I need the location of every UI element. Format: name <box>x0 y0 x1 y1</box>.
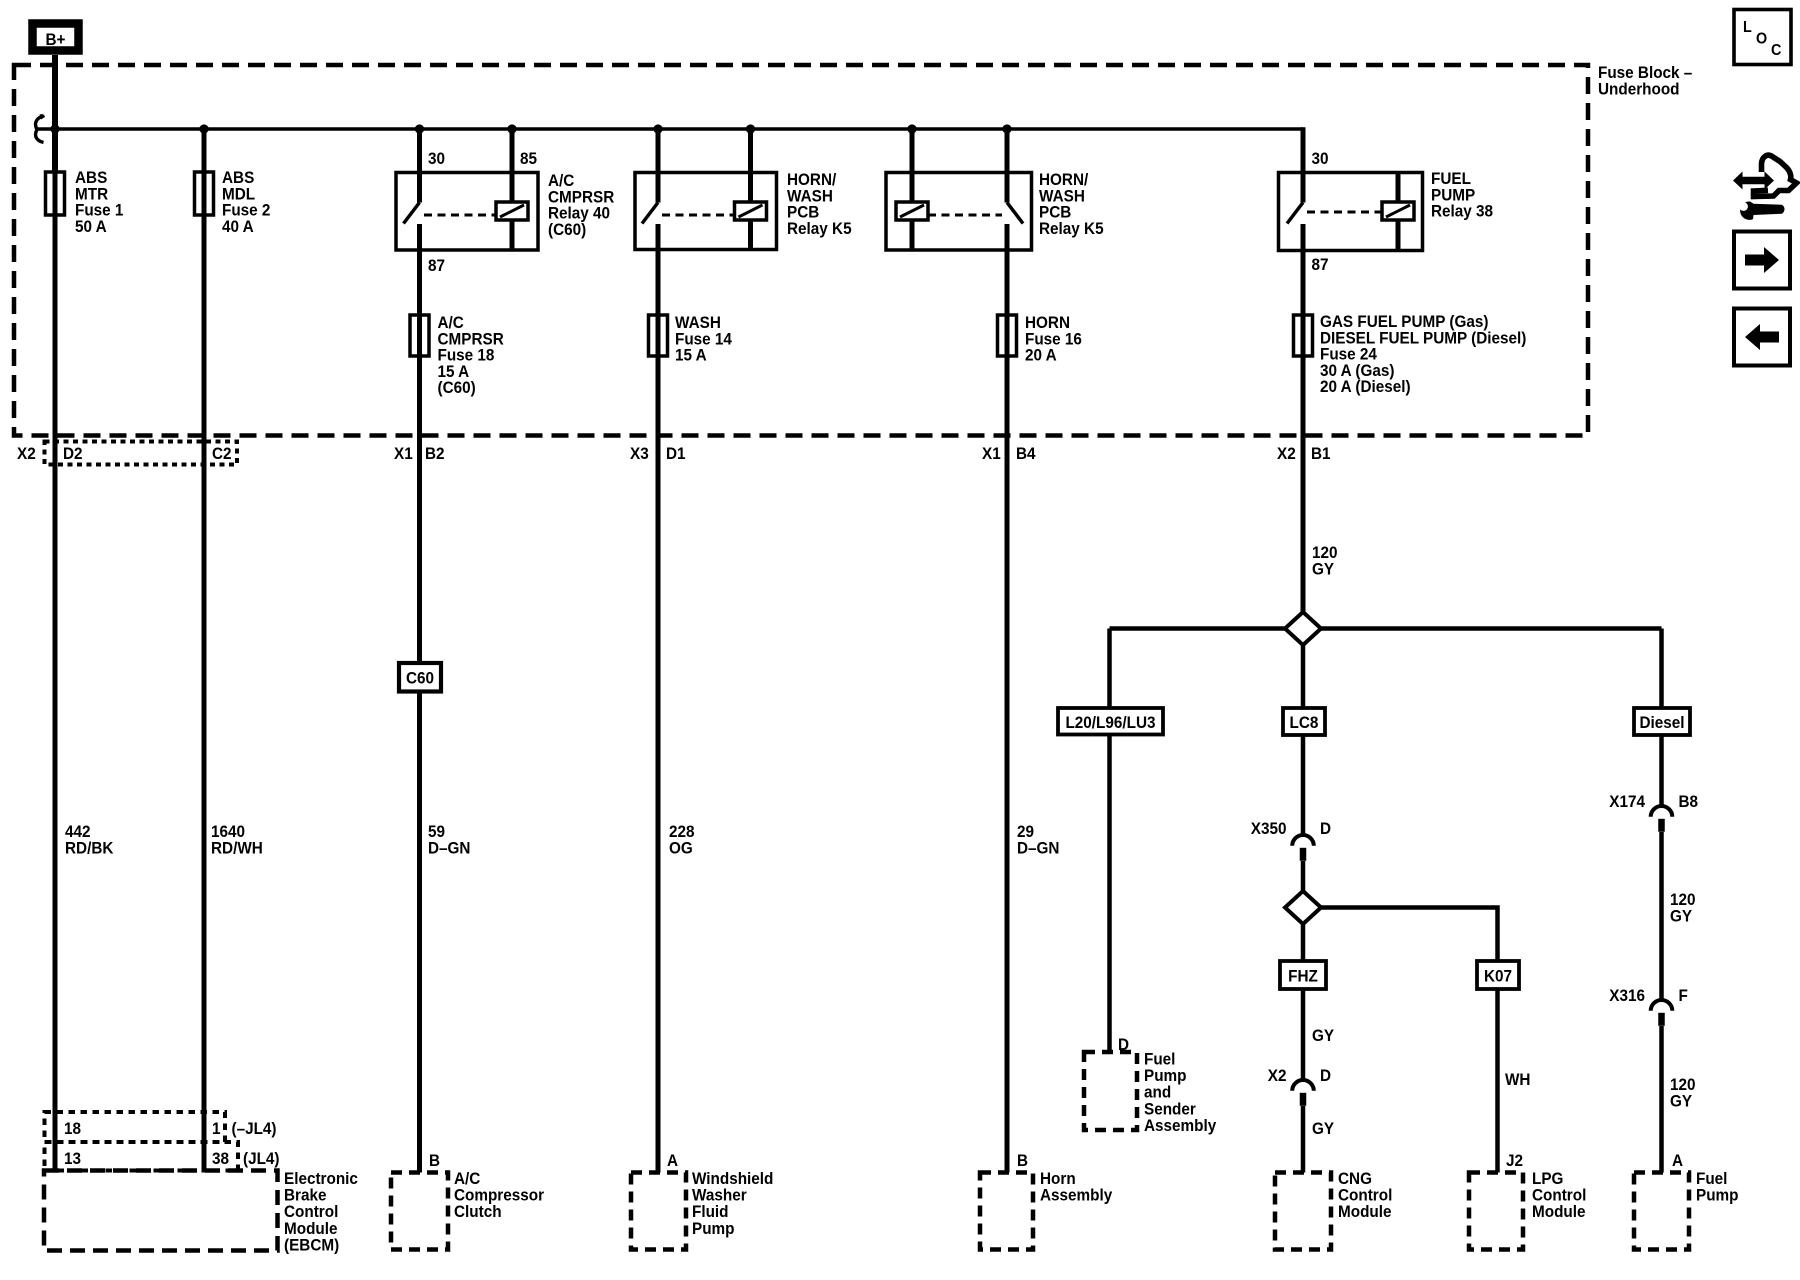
svg-text:30: 30 <box>1312 149 1329 168</box>
relay K5b coil <box>896 202 928 220</box>
svg-text:FUELPUMPRelay 38: FUELPUMPRelay 38 <box>1431 169 1493 221</box>
relay K5a dashed actuation link <box>662 214 734 217</box>
label HORN/WASH PCB Relay K5 (right) <box>1039 170 1104 238</box>
wire from bus to EBCM through fuse 1 (circuit 442) <box>53 129 58 1170</box>
relay K5b coil wire lower stub <box>910 220 915 250</box>
svg-text:C: C <box>1771 41 1781 59</box>
module Fuel Pump and Sender Assembly dashed box <box>1084 1052 1137 1130</box>
bus elbow down to fuel pump relay pin 30 <box>1301 127 1306 202</box>
option box FHZ <box>1280 961 1326 989</box>
svg-text:442RD/BK: 442RD/BK <box>65 822 114 857</box>
connector X174 terminal B8 inline <box>1609 792 1698 832</box>
wire splice S2 branch to K07 <box>1303 908 1498 962</box>
relay 40 pin 30 wire <box>417 129 422 203</box>
junction dot on bus at x=55 <box>50 124 59 133</box>
wire relay K5b to fuse 16 and horn (circuit 29) <box>1005 224 1010 1173</box>
label fuse 2 <box>222 168 270 236</box>
wire label GY above X2 connector <box>1312 1026 1334 1045</box>
svg-text:1640RD/WH: 1640RD/WH <box>211 822 263 857</box>
svg-text:X316: X316 <box>1609 986 1645 1005</box>
svg-text:L: L <box>1743 18 1752 36</box>
svg-text:X2: X2 <box>1277 444 1296 463</box>
label EBCM <box>284 1169 358 1254</box>
splice S2 CNG/LPG branch <box>1285 891 1321 924</box>
relay K5a coil wire upper <box>748 129 753 202</box>
junction dot on bus at x=204 <box>199 124 208 133</box>
svg-text:B2: B2 <box>425 444 445 463</box>
svg-text:B4: B4 <box>1016 444 1036 463</box>
label fuse 24 <box>1320 312 1526 396</box>
wire label 1640 RD/WH <box>211 822 263 857</box>
svg-text:K07: K07 <box>1484 967 1512 986</box>
svg-text:WindshieldWasherFluidPump: WindshieldWasherFluidPump <box>692 1169 773 1238</box>
svg-text:D: D <box>1320 819 1331 838</box>
connector X316 terminal F inline <box>1609 986 1688 1026</box>
fuse block underhood dashed boundary <box>14 65 1588 436</box>
junction dot on bus at x=658 <box>653 124 662 133</box>
bus wire B+ horizontal <box>37 127 1303 131</box>
wire X350 to splice S2 <box>1301 861 1306 891</box>
svg-text:GY: GY <box>1312 1026 1334 1045</box>
relay K5b switch contact (mirrored) <box>1007 203 1023 224</box>
label Fuse Block - Underhood <box>1598 63 1692 98</box>
svg-text:85: 85 <box>520 149 537 168</box>
module CNG Control Module dashed box <box>1275 1173 1331 1250</box>
label LPG Control Module <box>1532 1169 1586 1221</box>
svg-text:B1: B1 <box>1311 444 1331 463</box>
EBCM connector row pins 18 / 1 (-JL4) <box>45 1112 277 1142</box>
fuse F18 A/C CMPRSR 15A <box>410 315 429 356</box>
wire splice S2 down to FHZ <box>1301 924 1306 961</box>
connector X350 terminal D inline <box>1251 819 1331 861</box>
svg-text:B: B <box>1017 1151 1028 1170</box>
module Horn Assembly dashed box <box>980 1173 1033 1250</box>
svg-text:D2: D2 <box>63 444 83 463</box>
label fuse 18 <box>438 313 505 397</box>
svg-text:L20/L96/LU3: L20/L96/LU3 <box>1065 713 1155 732</box>
connector C60 inline box <box>399 663 441 692</box>
label fuse 1 <box>75 168 123 236</box>
wire relay 38 pin 87 through fuse 24 to splice (circuit 120) <box>1301 224 1306 612</box>
fuse F2 ABS MDL 40A <box>195 172 214 215</box>
svg-text:D: D <box>1320 1066 1331 1085</box>
relay 38 coil wire lower stub <box>1396 220 1401 251</box>
option box L20/L96/LU3 <box>1058 708 1163 735</box>
svg-text:(–JL4): (–JL4) <box>232 1119 277 1138</box>
label Windshield Washer Fluid Pump <box>692 1169 773 1238</box>
fuse F1 ABS MTR 50A <box>46 172 65 215</box>
relay K5b dashed actuation link <box>928 214 1002 217</box>
wire FHZ to X2 connector <box>1301 989 1306 1080</box>
svg-text:GY: GY <box>1312 1119 1334 1138</box>
splice S1 on fuel pump feed <box>1285 612 1321 645</box>
relay 40 coil <box>496 202 528 220</box>
svg-text:Diesel: Diesel <box>1639 713 1684 732</box>
label fuse 14 <box>675 313 732 365</box>
relay 38 switch contact <box>1287 203 1303 224</box>
fuse F14 WASH 15A <box>649 315 668 356</box>
wire splice S1 down through LC8 <box>1301 645 1306 835</box>
relay K5b HORN/WASH PCB relay box <box>886 173 1032 251</box>
svg-text:A: A <box>1672 1151 1683 1170</box>
navigation icon hand with double arrow and wrench <box>1733 155 1797 220</box>
svg-text:B: B <box>429 1151 440 1170</box>
svg-text:D1: D1 <box>666 444 686 463</box>
module Windshield Washer Fluid Pump dashed box <box>631 1173 686 1250</box>
wire from bus to EBCM through fuse 2 (circuit 1640) <box>202 129 207 1170</box>
navigation box arrow left <box>1734 309 1790 366</box>
svg-text:A/CCMPRSRFuse 1815 A(C60): A/CCMPRSRFuse 1815 A(C60) <box>438 313 505 397</box>
connector X2 dotted outline spanning D2-C2 <box>45 442 238 465</box>
relay 40 coil wire lower stub <box>510 220 515 250</box>
wire splice S1 branch horizontal to L20/L96/LU3 and Diesel <box>1110 626 1662 631</box>
svg-text:FuelPumpandSenderAssembly: FuelPumpandSenderAssembly <box>1144 1050 1216 1135</box>
wire label GY below X2 connector <box>1312 1119 1334 1138</box>
wire K07 to LPG control module <box>1495 989 1500 1173</box>
svg-text:A/CCMPRSRRelay 40(C60): A/CCMPRSRRelay 40(C60) <box>548 171 615 239</box>
relay 38 coil wire upper stub <box>1396 173 1401 203</box>
relay 40 dashed actuation link <box>424 214 496 217</box>
svg-text:1: 1 <box>212 1119 221 1138</box>
relay U1 A/C CMPRSR Relay 40 (C60) box <box>396 173 538 251</box>
option box K07 <box>1477 961 1519 989</box>
svg-text:18: 18 <box>64 1119 81 1138</box>
relay K5a coil wire lower stub <box>748 220 753 250</box>
svg-text:LC8: LC8 <box>1290 713 1319 732</box>
svg-text:87: 87 <box>1312 255 1329 274</box>
svg-text:X2: X2 <box>1268 1066 1287 1085</box>
junction dot on bus at x=419.5 <box>415 124 424 133</box>
svg-text:ElectronicBrakeControlModule(E: ElectronicBrakeControlModule(EBCM) <box>284 1169 358 1254</box>
svg-text:FuelPump: FuelPump <box>1696 1169 1739 1205</box>
relay 38 dashed actuation link <box>1307 211 1382 214</box>
svg-text:30: 30 <box>428 149 445 168</box>
wire X316 to fuel pump <box>1659 1026 1664 1173</box>
svg-text:120GY: 120GY <box>1670 1075 1696 1110</box>
svg-text:38: 38 <box>212 1149 229 1168</box>
navigation box arrow right <box>1734 232 1790 289</box>
svg-text:J2: J2 <box>1506 1151 1523 1170</box>
svg-text:59D–GN: 59D–GN <box>428 822 470 857</box>
svg-text:HORNFuse 1620 A: HORNFuse 1620 A <box>1025 313 1082 365</box>
svg-text:X1: X1 <box>394 444 413 463</box>
wire label 228 OG <box>669 822 695 857</box>
wire label 120 GY diesel lower <box>1670 1075 1696 1110</box>
relay K5a switch contact <box>642 203 658 224</box>
svg-text:13: 13 <box>64 1149 81 1168</box>
label HORN/WASH PCB Relay K5 (left) <box>787 170 852 238</box>
svg-text:X3: X3 <box>630 444 649 463</box>
label fuse 16 <box>1025 313 1082 365</box>
svg-text:A: A <box>667 1151 678 1170</box>
wire relay K5a to fuse 14 and washer pump (circuit 228) <box>656 224 661 1173</box>
svg-text:O: O <box>1756 30 1767 48</box>
svg-text:120GY: 120GY <box>1670 890 1696 925</box>
svg-text:(JL4): (JL4) <box>243 1149 280 1168</box>
svg-text:C60: C60 <box>406 669 434 688</box>
junction dot on bus at x=750.5 <box>746 124 755 133</box>
svg-text:HORN/WASHPCBRelay K5: HORN/WASHPCBRelay K5 <box>787 170 852 238</box>
label Horn Assembly <box>1040 1169 1112 1205</box>
junction dot on bus at x=512 <box>507 124 516 133</box>
svg-text:F: F <box>1679 986 1688 1005</box>
svg-text:120GY: 120GY <box>1312 543 1338 578</box>
wire X174 to X316 <box>1659 832 1664 1000</box>
option box Diesel <box>1634 708 1690 735</box>
wire label 442 RD/BK <box>65 822 114 857</box>
wire relay 40 pin 87 to fuse 18 and A/C compressor clutch (circuit 59) <box>417 224 422 1173</box>
svg-text:HornAssembly: HornAssembly <box>1040 1169 1112 1205</box>
label A/C CMPRSR Relay 40 (C60) <box>548 171 615 239</box>
wire label 59 D-GN <box>428 822 470 857</box>
junction dot on bus at x=1007 <box>1002 124 1011 133</box>
label FUEL PUMP Relay 38 <box>1431 169 1493 221</box>
svg-text:FHZ: FHZ <box>1288 967 1318 986</box>
label CNG Control Module <box>1338 1169 1392 1221</box>
location code box L O C <box>1734 10 1791 65</box>
svg-text:GAS FUEL PUMP (Gas)DIESEL FUEL: GAS FUEL PUMP (Gas)DIESEL FUEL PUMP (Die… <box>1320 312 1526 396</box>
fuse F16 HORN 20A <box>998 315 1017 356</box>
relay U38 FUEL PUMP Relay 38 box <box>1279 173 1423 251</box>
svg-text:LPGControlModule: LPGControlModule <box>1532 1169 1586 1221</box>
module Fuel Pump dashed box <box>1634 1173 1689 1250</box>
relay K5a HORN/WASH PCB relay box <box>635 173 777 250</box>
wire label 29 D-GN <box>1017 822 1059 857</box>
wire L20/L96/LU3 to fuel pump sender assembly <box>1107 735 1112 1053</box>
power symbol B+ <box>33 24 79 51</box>
EBCM connector row pins 13 / 38 (JL4) <box>45 1142 280 1171</box>
svg-text:29D–GN: 29D–GN <box>1017 822 1059 857</box>
module LPG Control Module dashed box <box>1469 1173 1523 1250</box>
svg-text:87: 87 <box>428 256 445 275</box>
svg-text:228OG: 228OG <box>669 822 695 857</box>
label Fuel Pump and Sender Assembly <box>1144 1050 1216 1135</box>
relay K5a switch pin wire <box>656 129 661 203</box>
svg-text:C2: C2 <box>212 444 232 463</box>
relay K5a coil <box>735 202 767 220</box>
svg-text:Fuse Block –Underhood: Fuse Block –Underhood <box>1598 63 1692 98</box>
wire label WH on K07 branch <box>1505 1070 1530 1089</box>
relay K5b switch pin wire <box>1005 129 1010 203</box>
wire label 120 GY diesel upper <box>1670 890 1696 925</box>
relay 40 switch contact <box>404 203 420 224</box>
junction dot on bus at x=912 <box>907 124 916 133</box>
svg-text:B8: B8 <box>1679 792 1699 811</box>
svg-text:HORN/WASHPCBRelay K5: HORN/WASHPCBRelay K5 <box>1039 170 1104 238</box>
relay 38 coil <box>1382 202 1414 220</box>
wire Diesel branch down <box>1659 629 1664 807</box>
svg-text:WASHFuse 1415 A: WASHFuse 1415 A <box>675 313 732 365</box>
label A/C Compressor Clutch <box>454 1169 545 1221</box>
continuation hook at bus left end <box>36 114 45 142</box>
svg-text:X174: X174 <box>1609 792 1645 811</box>
svg-text:WH: WH <box>1505 1070 1530 1089</box>
option box LC8 <box>1283 708 1325 735</box>
svg-text:B+: B+ <box>46 30 66 49</box>
fuse F24 GAS/DIESEL FUEL PUMP <box>1294 315 1313 356</box>
wire X2 connector to CNG control module <box>1301 1106 1306 1173</box>
connector X2 terminal D inline <box>1268 1066 1331 1106</box>
wire to L20/L96/LU3 option box <box>1107 629 1112 709</box>
module Electronic Brake Control Module (EBCM) dashed box <box>44 1171 278 1251</box>
svg-text:ABSMTRFuse 150 A: ABSMTRFuse 150 A <box>75 168 123 236</box>
svg-text:CNGControlModule: CNGControlModule <box>1338 1169 1392 1221</box>
label Fuel Pump <box>1696 1169 1739 1205</box>
svg-text:A/CCompressorClutch: A/CCompressorClutch <box>454 1169 545 1221</box>
relay K5b coil wire upper <box>910 129 915 202</box>
module A/C Compressor Clutch dashed box <box>391 1173 448 1250</box>
wire label 120 GY upper <box>1312 543 1338 578</box>
svg-text:X2: X2 <box>17 444 36 463</box>
relay 40 pin 85 coil wire upper <box>510 129 515 202</box>
svg-text:X350: X350 <box>1251 819 1287 838</box>
svg-text:X1: X1 <box>982 444 1001 463</box>
svg-text:ABSMDLFuse 240 A: ABSMDLFuse 240 A <box>222 168 270 236</box>
wire B+ feed from battery symbol <box>52 55 58 172</box>
